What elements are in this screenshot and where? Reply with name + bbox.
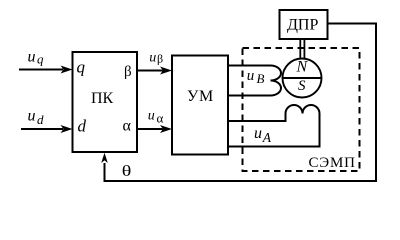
block UM U2 (power amplifier УМ) — [172, 56, 228, 155]
wire u_alpha (ПК to УМ) — [137, 128, 163, 130]
svg-text:u: u — [28, 108, 36, 125]
svg-text:q: q — [77, 58, 86, 77]
wire input u_d — [21, 128, 63, 130]
svg-text:СЭМП: СЭМП — [309, 155, 356, 171]
arrowhead theta feedback into ПК bottom — [101, 153, 108, 163]
arrowhead into ПК d input — [61, 125, 73, 133]
svg-text:A: A — [262, 130, 272, 145]
rotor pole divider line — [283, 77, 322, 79]
svg-text:u: u — [149, 50, 156, 65]
wire u_A return lead — [228, 114, 320, 147]
svg-text:θ: θ — [122, 162, 132, 180]
svg-text:α: α — [157, 111, 164, 126]
svg-text:ПК: ПК — [91, 90, 114, 107]
rotor M1 (motor rotor circle) — [283, 59, 322, 98]
svg-text:u: u — [254, 125, 262, 142]
svg-text:u: u — [247, 68, 255, 84]
wire u_beta (ПК to УМ) — [137, 70, 163, 72]
svg-text:B: B — [257, 71, 265, 86]
svg-text:u: u — [28, 48, 36, 65]
inductor L_A (stator winding A, two upward bumps) — [286, 105, 320, 114]
svg-text:q: q — [37, 52, 44, 67]
wire u_A top lead — [228, 114, 286, 122]
svg-text:β: β — [157, 52, 163, 66]
wire u_B bottom lead — [228, 95, 271, 97]
inductor L_B (stator winding B, two right-bulging turns) — [271, 66, 282, 96]
wire input u_q — [19, 69, 63, 71]
arrowhead into ПК q input — [61, 66, 73, 74]
wire u_B top lead — [228, 65, 271, 67]
svg-text:N: N — [296, 59, 309, 76]
svg-text:УМ: УМ — [187, 88, 214, 105]
svg-text:d: d — [78, 117, 87, 136]
svg-text:S: S — [298, 78, 306, 94]
wire feedback theta (ДПР output to ПК) — [105, 24, 377, 182]
arrowhead into УМ alpha input — [160, 125, 172, 133]
svg-text:d: d — [37, 112, 44, 127]
block DPR U3 (rotor position sensor ДПР) — [280, 10, 328, 39]
svg-text:α: α — [123, 118, 132, 135]
arrowhead into УМ beta input — [160, 67, 172, 75]
dashed enclosure SEMP (СЭМП subsystem boundary) — [243, 48, 360, 171]
svg-text:ДПР: ДПР — [287, 17, 318, 34]
svg-text:β: β — [124, 64, 132, 80]
block PK U1 (coordinate converter ПК) — [73, 52, 138, 152]
shaft coupling double line (rotor to ДПР) — [299, 39, 301, 59]
svg-text:u: u — [148, 109, 155, 124]
